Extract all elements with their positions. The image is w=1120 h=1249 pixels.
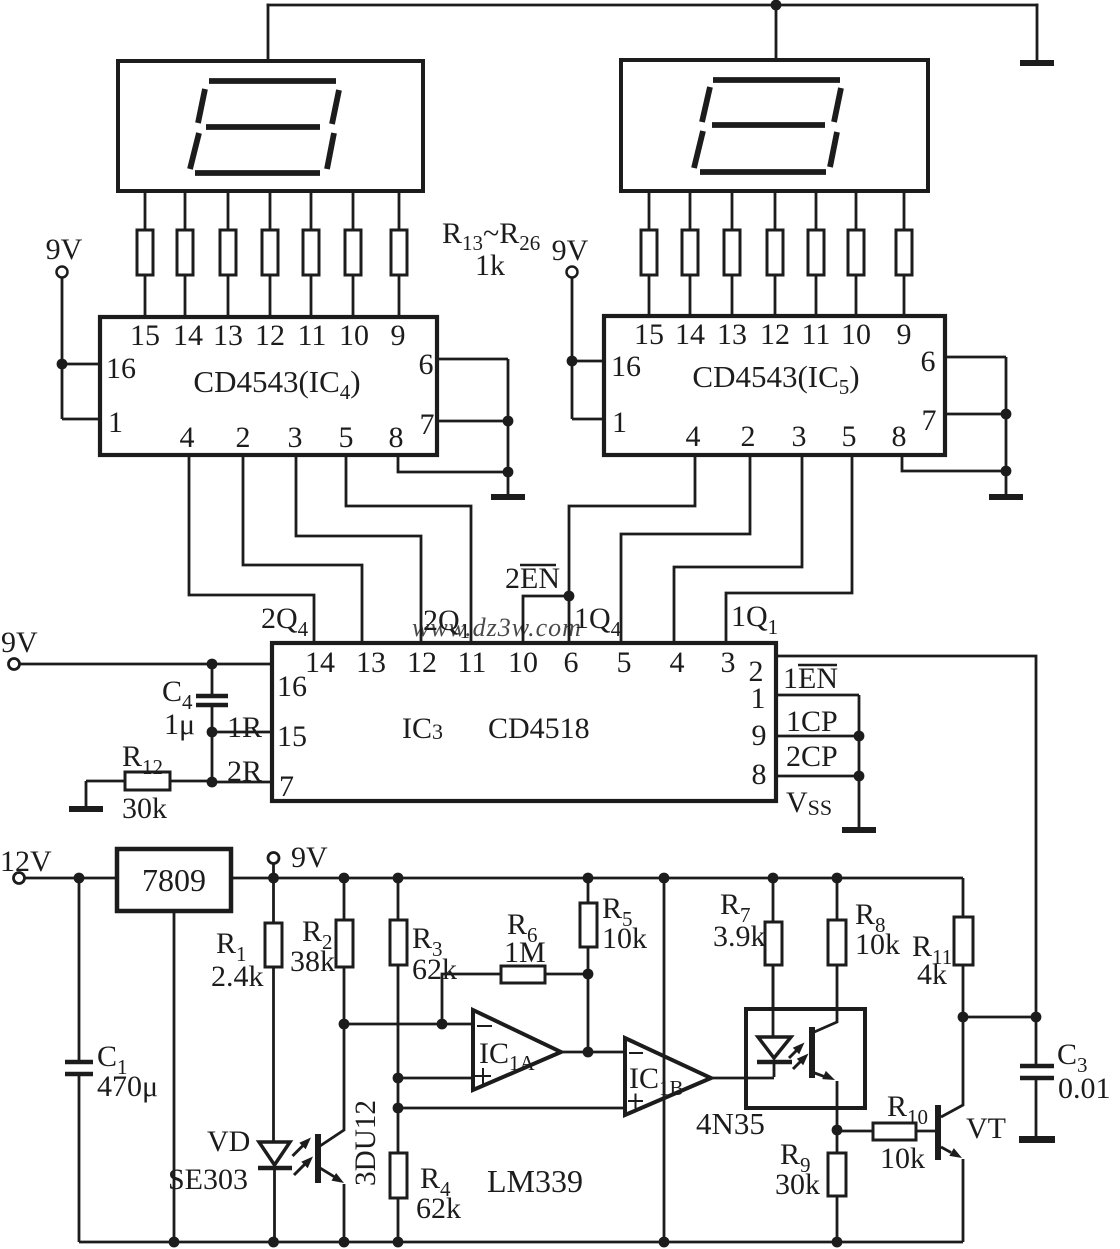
wire to CD4518 pin7 xyxy=(212,781,272,784)
node 9V terminal (CD4518) xyxy=(9,659,20,670)
wire IC1A minus input xyxy=(344,1023,473,1026)
node junction IC4 pin16 xyxy=(57,359,68,370)
wire IC5 pin 6 xyxy=(945,356,1006,359)
wire IC5 pin3 to CD4518 pin4 xyxy=(674,454,802,643)
svg-text:10k: 10k xyxy=(880,1142,925,1175)
svg-text:CD4518: CD4518 xyxy=(488,712,590,745)
svg-text:62k: 62k xyxy=(412,953,457,986)
svg-text:www.dz3w.com: www.dz3w.com xyxy=(412,613,582,642)
wire IC1A output to IC1B minus xyxy=(561,1051,625,1054)
svg-text:4N35: 4N35 xyxy=(696,1106,765,1141)
capacitor C3 xyxy=(1020,1017,1054,1136)
node junction rail drop bottom xyxy=(659,1237,670,1248)
wire IC1B output to 4N35 LED xyxy=(711,1077,774,1080)
resistor R11 xyxy=(954,878,973,1017)
svg-text:0.01: 0.01 xyxy=(1058,1072,1111,1105)
resistor R15 xyxy=(220,191,236,317)
svg-text:10k: 10k xyxy=(855,928,900,961)
wire IC5 pin4 to CD4518 pin6 xyxy=(569,454,695,643)
wire top supply rail xyxy=(268,4,1037,7)
svg-text:16: 16 xyxy=(277,670,307,703)
svg-text:30k: 30k xyxy=(122,792,167,825)
svg-text:11: 11 xyxy=(458,646,487,679)
svg-text:2EN: 2EN xyxy=(505,562,560,595)
svg-text:3.9k: 3.9k xyxy=(713,920,766,953)
svg-text:9V: 9V xyxy=(291,841,328,874)
svg-text:7: 7 xyxy=(922,404,937,437)
node junction R3/IC1B plus xyxy=(393,1103,404,1114)
wire IC4 pin 6 xyxy=(437,358,508,361)
svg-text:16: 16 xyxy=(611,350,641,383)
svg-text:2R: 2R xyxy=(227,755,262,788)
seven-segment display DS1 xyxy=(118,61,423,191)
node junction IC4 pin7 xyxy=(503,416,514,427)
node junction 1R xyxy=(207,727,218,738)
op-amp IC1B xyxy=(625,1038,711,1115)
resistor R8 xyxy=(828,878,846,965)
node label 2EN xyxy=(505,562,560,595)
svg-text:3: 3 xyxy=(288,421,303,454)
node 12V terminal xyxy=(14,873,25,884)
resistor R26 xyxy=(896,190,912,316)
svg-text:14: 14 xyxy=(173,319,203,352)
svg-text:1M: 1M xyxy=(504,936,546,969)
svg-text:2.4k: 2.4k xyxy=(211,960,264,993)
svg-text:9: 9 xyxy=(752,719,767,752)
node junction pin8 xyxy=(854,771,865,782)
wire display1 anode drop xyxy=(267,5,270,61)
IC5 CD4543 xyxy=(604,316,945,455)
svg-text:2CP: 2CP xyxy=(786,740,838,773)
label R13~R26 1k xyxy=(442,217,540,282)
node junction R3/IC1A plus xyxy=(393,1073,404,1084)
wire display2 anode drop xyxy=(775,5,778,60)
wire IC4 pin5 to CD4518 pin11 xyxy=(346,455,471,643)
svg-text:SE303: SE303 xyxy=(168,1163,248,1196)
resistor R7 xyxy=(765,878,782,1009)
svg-text:13: 13 xyxy=(356,646,386,679)
wire IC4 pin2 to CD4518 pin13 xyxy=(243,455,362,643)
svg-text:1Q1: 1Q1 xyxy=(731,600,778,639)
wire 9V terminal stub xyxy=(272,864,275,879)
resistor R19 xyxy=(391,191,407,317)
wire IC5 pin5 to CD4518 pin3 xyxy=(726,454,852,643)
node junction R3 top xyxy=(393,873,404,884)
node junction VD bottom xyxy=(268,1237,279,1248)
svg-text:3: 3 xyxy=(721,646,736,679)
transistor VT xyxy=(935,1017,963,1242)
node junction 4N35 emitter/R9/R10 xyxy=(832,1125,843,1136)
svg-text:6: 6 xyxy=(419,348,434,381)
svg-text:62k: 62k xyxy=(416,1192,461,1225)
svg-text:10: 10 xyxy=(841,318,871,351)
node junction R9 bottom xyxy=(832,1237,843,1248)
node junction 7809 gnd xyxy=(169,1237,180,1248)
resistor R20 xyxy=(641,190,657,316)
node junction R1 top xyxy=(268,873,279,884)
svg-text:6: 6 xyxy=(564,646,579,679)
svg-text:14: 14 xyxy=(675,318,705,351)
svg-text:4: 4 xyxy=(686,420,701,453)
svg-text:9: 9 xyxy=(897,318,912,351)
resistor R12 xyxy=(86,772,207,790)
resistor R25 xyxy=(848,190,864,316)
ground IC5 xyxy=(989,494,1023,500)
node 9V terminal (IC4) xyxy=(57,267,68,278)
svg-text:5: 5 xyxy=(842,420,857,453)
IC4 CD4543 xyxy=(100,317,437,455)
node junction R4 bottom xyxy=(393,1237,404,1248)
wire bottom ground rail xyxy=(79,1241,963,1244)
node junction 1Q4/2EN xyxy=(564,591,575,602)
wire CD4518 pin8 xyxy=(776,775,859,778)
svg-text:6: 6 xyxy=(921,345,936,378)
node top rail junction xyxy=(771,0,782,10)
wire 9V to CD4518 pin16 xyxy=(20,663,273,666)
node 9V terminal (IC5) xyxy=(567,267,578,278)
wire to top-right ground xyxy=(1036,5,1039,60)
capacitor C4 xyxy=(196,664,228,732)
svg-text:1CP: 1CP xyxy=(786,705,838,738)
VD light arrows xyxy=(293,1138,314,1176)
wire IC5 pin 7 xyxy=(945,413,1006,416)
node junction R6 left xyxy=(437,1019,448,1030)
label 1EN xyxy=(783,662,838,695)
svg-text:2Q4: 2Q4 xyxy=(261,602,309,641)
svg-text:8: 8 xyxy=(389,421,404,454)
resistor R24 xyxy=(808,190,824,316)
wire IC4 pins 6-7-8 common xyxy=(507,359,510,494)
svg-text:VD: VD xyxy=(207,1125,250,1158)
regulator 7809 xyxy=(117,849,231,911)
svg-text:9V: 9V xyxy=(46,233,83,266)
op IC3 CD4518 xyxy=(272,643,776,801)
svg-text:IC1B: IC1B xyxy=(629,1062,684,1100)
wire CD4518 pin9 xyxy=(776,735,859,738)
resistor R17 xyxy=(303,191,319,317)
svg-text:VSS: VSS xyxy=(786,786,832,820)
svg-text:14: 14 xyxy=(305,646,335,679)
ground R12 xyxy=(69,806,103,812)
svg-text:16: 16 xyxy=(106,352,136,385)
node junction R6 right xyxy=(583,969,594,980)
node 9V terminal (bottom) xyxy=(268,853,279,864)
wire 9V rail xyxy=(231,877,963,880)
node junction 3DU12 emitter bottom xyxy=(339,1237,350,1248)
svg-text:30k: 30k xyxy=(775,1168,820,1201)
op-amp IC1A xyxy=(473,1010,561,1090)
svg-text:9: 9 xyxy=(391,319,406,352)
node junction R8 top xyxy=(832,873,843,884)
svg-text:10: 10 xyxy=(339,319,369,352)
node junction pin9 xyxy=(854,731,865,742)
svg-text:13: 13 xyxy=(717,318,747,351)
svg-text:1EN: 1EN xyxy=(783,662,838,695)
svg-text:12: 12 xyxy=(407,646,437,679)
svg-text:VT: VT xyxy=(966,1112,1006,1145)
svg-text:LM339: LM339 xyxy=(487,1163,583,1199)
wire 7809 ground lead xyxy=(173,911,176,1242)
resistors R20-R26 with display2 pin wires xyxy=(641,190,912,316)
svg-text:1k: 1k xyxy=(475,249,505,282)
diode VD SE303 xyxy=(258,1142,292,1242)
wire 12V to 7809 xyxy=(25,877,118,880)
wire IC4 pin4 to CD4518 pin14 xyxy=(189,455,314,643)
node junction IC5 pin8 xyxy=(1001,466,1012,477)
svg-text:1R: 1R xyxy=(227,711,262,744)
wire R12 to ground xyxy=(85,781,88,806)
wire 9V to IC4 pins 16 and 1 xyxy=(62,278,100,420)
svg-text:1: 1 xyxy=(751,682,766,715)
svg-text:7: 7 xyxy=(279,770,294,803)
svg-text:12: 12 xyxy=(760,318,790,351)
resistor R13 xyxy=(137,191,153,317)
wire IC5 pins 6-7-8 common xyxy=(1005,357,1008,494)
svg-text:2: 2 xyxy=(236,421,251,454)
node junction R5/IC1A out xyxy=(583,1047,594,1058)
resistor R3 xyxy=(390,878,407,1153)
svg-text:CD4543(IC5): CD4543(IC5) xyxy=(692,359,859,399)
svg-text:470μ: 470μ xyxy=(97,1070,158,1103)
transistor 3DU12 xyxy=(315,1024,344,1242)
svg-text:3DU12: 3DU12 xyxy=(349,1100,382,1186)
resistor R23 xyxy=(767,190,783,316)
ground C3 xyxy=(1019,1136,1055,1143)
svg-text:7: 7 xyxy=(420,408,435,441)
svg-text:13: 13 xyxy=(213,319,243,352)
svg-text:15: 15 xyxy=(130,319,160,352)
resistor R2 xyxy=(336,878,353,1024)
seven-segment display DS2 xyxy=(621,60,928,191)
resistor R22 xyxy=(724,190,740,316)
svg-text:12V: 12V xyxy=(0,845,52,878)
node junction IC4 pin8 xyxy=(503,467,514,478)
wire IC1A plus input xyxy=(398,1077,473,1080)
svg-text:10: 10 xyxy=(508,646,538,679)
svg-text:15: 15 xyxy=(634,318,664,351)
resistor R21 xyxy=(682,190,698,316)
svg-text:15: 15 xyxy=(277,720,307,753)
wire IC4 pin3 to CD4518 pin12 xyxy=(296,455,421,643)
resistor R5 xyxy=(580,878,597,1052)
svg-text:8: 8 xyxy=(752,758,767,791)
svg-text:5: 5 xyxy=(617,646,632,679)
node junction IC1B rail drop xyxy=(659,873,670,884)
svg-text:9V: 9V xyxy=(1,626,38,659)
svg-text:3: 3 xyxy=(792,420,807,453)
svg-text:1: 1 xyxy=(108,406,123,439)
resistor R16 xyxy=(262,191,278,317)
node junction C3 top xyxy=(1031,1012,1042,1023)
svg-text:8: 8 xyxy=(892,420,907,453)
ground top-right xyxy=(1020,60,1054,66)
wire IC5 pin2 to CD4518 pin5 xyxy=(621,454,750,643)
svg-text:9V: 9V xyxy=(552,234,589,267)
node junction C4 top xyxy=(207,659,218,670)
svg-text:CD4543(IC4): CD4543(IC4) xyxy=(193,364,360,404)
svg-text:10k: 10k xyxy=(602,922,647,955)
node junction R5 top xyxy=(583,873,594,884)
wire collector to C3 xyxy=(963,1016,1036,1019)
svg-text:5: 5 xyxy=(339,421,354,454)
wire 1R to 2R xyxy=(211,732,214,782)
node junction IC5 pin16 xyxy=(567,356,578,367)
resistor R10 xyxy=(837,1123,935,1140)
svg-text:2: 2 xyxy=(741,420,756,453)
resistor R14 xyxy=(177,191,193,317)
wire pins 1-9-8 common to ground xyxy=(858,695,861,827)
resistor R6 xyxy=(442,966,588,1024)
node junction VT collector xyxy=(958,1012,969,1023)
wire 9V rail drop through IC1B xyxy=(663,878,666,1242)
svg-text:1: 1 xyxy=(612,406,627,439)
node junction R2 top xyxy=(339,873,350,884)
node junction C1 top xyxy=(74,873,85,884)
svg-text:38k: 38k xyxy=(290,945,335,978)
wire 9V to IC5 pins 16 and 1 xyxy=(572,278,604,420)
node junction R2/3DU12 collector xyxy=(339,1019,350,1030)
wire IC4 pin 7 xyxy=(437,420,508,423)
node junction 2R xyxy=(207,777,218,788)
resistor R18 xyxy=(345,191,361,317)
svg-text:4: 4 xyxy=(180,421,195,454)
wire CD4518 pin2 to bottom right xyxy=(776,656,1036,1017)
resistor R4 xyxy=(390,1153,407,1242)
svg-text:IC3: IC3 xyxy=(402,712,443,745)
svg-text:12: 12 xyxy=(255,319,285,352)
ground Vss xyxy=(842,827,876,833)
wire IC5 pin 8 xyxy=(902,455,1006,471)
ground IC4 xyxy=(491,494,525,500)
svg-text:4k: 4k xyxy=(917,958,947,991)
capacitor C1 xyxy=(65,878,93,1242)
optocoupler 4N35 xyxy=(746,965,865,1130)
wire to CD4518 pin15 xyxy=(212,731,272,734)
wire IC4 pin 8 xyxy=(398,455,508,472)
resistors R13-R19 with display1 pin wires xyxy=(137,191,407,317)
wire CD4518 pin1 xyxy=(776,694,859,697)
node junction R7 top xyxy=(768,873,779,884)
resistor R1 xyxy=(265,878,282,1142)
wire CD4518 pin10 2EN stub xyxy=(523,596,569,643)
resistor R9 xyxy=(828,1130,846,1242)
wire IC1B plus input xyxy=(398,1107,625,1110)
svg-text:11: 11 xyxy=(802,318,831,351)
svg-text:4: 4 xyxy=(670,646,685,679)
svg-text:1μ: 1μ xyxy=(164,708,195,741)
svg-text:7809: 7809 xyxy=(142,862,206,898)
svg-text:IC1A: IC1A xyxy=(479,1037,536,1075)
node junction IC5 pin7 xyxy=(1001,409,1012,420)
svg-text:11: 11 xyxy=(298,319,327,352)
